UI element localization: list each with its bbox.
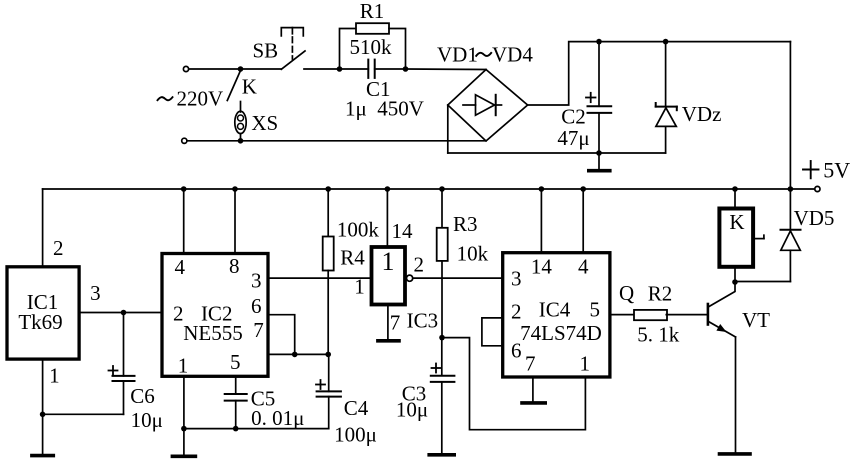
svg-text:2: 2 (173, 302, 184, 326)
svg-text:10μ: 10μ (396, 398, 428, 422)
capacitor C6 (43, 313, 135, 415)
wire IC4 pin4 (582, 189, 584, 253)
svg-text:4: 4 (175, 255, 186, 279)
svg-text:14: 14 (392, 219, 414, 243)
wire IC3 out to IC4 pin3 (413, 277, 503, 279)
resistor R4 (323, 189, 334, 354)
wire IC2 pin6 loop (268, 315, 295, 355)
wire (304, 68, 340, 70)
svg-text:10μ: 10μ (131, 408, 163, 432)
svg-text:XS: XS (251, 111, 278, 135)
svg-text:100k: 100k (337, 218, 380, 242)
wire IC2 pin7 (268, 353, 328, 355)
node junction top-left (238, 66, 244, 72)
node rail IC3 pin14 (385, 186, 391, 192)
svg-text:6: 6 (511, 339, 522, 363)
node rail R4 (325, 186, 331, 192)
label +5V (803, 157, 850, 182)
svg-text:1: 1 (354, 275, 365, 299)
node pin6 pin7 (292, 352, 298, 358)
node VDz top (663, 39, 669, 45)
wire (240, 134, 242, 141)
svg-text:3: 3 (251, 268, 262, 292)
node rail IC4 pin14 (539, 186, 545, 192)
label ~220V (158, 86, 224, 110)
svg-text:5V: 5V (823, 157, 850, 182)
resistor R1 (340, 23, 406, 69)
node rail relay K (732, 186, 738, 192)
svg-text:C4: C4 (344, 396, 369, 420)
svg-text:VD1: VD1 (437, 42, 478, 66)
svg-text:510k: 510k (350, 35, 393, 59)
node rail IC2 pin8 (232, 186, 238, 192)
wire ground link (184, 428, 329, 430)
node C2 top (596, 39, 602, 45)
ground at IC2 pin1 (172, 454, 195, 458)
switch K blade (227, 71, 240, 101)
node R1C1 right (403, 66, 409, 72)
svg-text:6: 6 (251, 294, 262, 318)
wire IC4 pin7 (532, 377, 534, 401)
wire relay K top (734, 189, 736, 209)
node IC1 pin1 C6 (40, 412, 46, 418)
wire reset R3 to IC4 pin1 (442, 338, 585, 430)
svg-text:R1: R1 (360, 0, 385, 23)
node rail R3 (439, 186, 445, 192)
wire IC1 pin1 (42, 359, 44, 454)
node junction bottom-left (238, 138, 244, 144)
svg-text:VDz: VDz (682, 102, 722, 126)
terminal AC input top (183, 66, 188, 71)
svg-text:10k: 10k (457, 241, 489, 265)
pushbutton SB (281, 28, 305, 70)
wire (406, 68, 487, 71)
wire IC2 pin3 to IC3 pin1 (268, 277, 369, 279)
resistor R3 (437, 189, 448, 338)
IC3 box (372, 247, 406, 305)
node rail IC2 pin4 (181, 186, 187, 192)
node R4 C4 (325, 352, 331, 358)
svg-text:VD4: VD4 (492, 42, 533, 66)
socket XS (235, 111, 246, 133)
svg-text:220V: 220V (177, 86, 224, 110)
svg-text:NE555: NE555 (183, 321, 243, 345)
wire AC bottom to bridge (187, 140, 486, 142)
IC2 box (162, 254, 268, 377)
terminal +5V (815, 186, 820, 191)
resistor R2 (634, 310, 667, 320)
ground at IC4 (522, 401, 545, 405)
svg-text:2: 2 (414, 252, 425, 276)
wire R2 to base (666, 314, 708, 316)
ground at VT emitter (720, 452, 751, 456)
svg-text:Tk69: Tk69 (18, 310, 62, 334)
svg-text:1: 1 (579, 351, 590, 375)
wire IC3 pin7 (387, 306, 389, 339)
wire (240, 102, 242, 113)
svg-text:2: 2 (53, 236, 64, 260)
svg-text:47μ: 47μ (557, 126, 589, 150)
svg-text:100μ: 100μ (334, 423, 377, 447)
wire IC1 pin2 (42, 189, 44, 267)
capacitor C1 (340, 60, 406, 78)
svg-text:VD5: VD5 (794, 206, 835, 230)
svg-text:IC4: IC4 (539, 298, 571, 322)
ground at C2 (589, 153, 610, 171)
svg-text:7: 7 (525, 351, 536, 375)
svg-text:C6: C6 (130, 384, 155, 408)
wire relay K bottom (734, 267, 736, 282)
svg-text:IC3: IC3 (407, 309, 439, 333)
wire top rail to +5V rail (789, 42, 791, 189)
label VD1~VD4 (437, 42, 533, 66)
+5V rail (43, 188, 815, 190)
wire IC4 pin2 pin6 loop (482, 318, 503, 346)
svg-text:R4: R4 (340, 246, 365, 270)
relay K box (719, 209, 753, 267)
wire IC4 pin5 (610, 314, 634, 316)
wire IC4 pin14 (540, 189, 542, 253)
svg-text:1: 1 (382, 247, 395, 276)
node C5 bottom (233, 426, 239, 432)
wire IC3 pin14 (386, 189, 388, 245)
svg-text:K: K (729, 210, 744, 234)
svg-text:R2: R2 (648, 282, 673, 306)
svg-text:1: 1 (178, 354, 189, 378)
svg-text:8: 8 (229, 254, 240, 278)
wire IC2 pin1 (183, 376, 185, 454)
svg-text:74LS74D: 74LS74D (520, 321, 602, 345)
zener diode VDz (656, 42, 677, 153)
svg-text:1: 1 (49, 364, 60, 388)
capacitor C2 (586, 42, 611, 153)
node rail VD5 (788, 186, 794, 192)
bridge rectifier VD1~VD4 (448, 70, 528, 142)
wire IC2 pin8 (234, 189, 236, 254)
wire bridge plus to top rail (528, 42, 791, 105)
node R1C1 left (337, 66, 343, 72)
svg-text:3: 3 (511, 267, 522, 291)
svg-text:K: K (242, 75, 257, 99)
node R3 C3 (439, 335, 445, 341)
svg-text:4: 4 (578, 255, 589, 279)
svg-text:3: 3 (90, 281, 101, 305)
wire (189, 68, 241, 70)
svg-text:5: 5 (230, 350, 241, 374)
capacitor C5 (225, 394, 247, 429)
svg-text:Q: Q (619, 281, 634, 305)
svg-text:VT: VT (742, 308, 770, 332)
terminal AC input bottom (182, 138, 187, 143)
diode VD5 (735, 189, 801, 282)
node pin3 C6 (121, 310, 127, 316)
capacitor C3 (431, 338, 455, 453)
wire IC2 pin4 (183, 189, 185, 254)
node collector VD5 (732, 279, 738, 285)
wire negative rail (448, 152, 666, 154)
svg-text:5: 5 (590, 298, 601, 322)
ground at IC3 (378, 339, 399, 343)
svg-text:1μ 450V: 1μ 450V (345, 97, 424, 121)
svg-text:SB: SB (252, 38, 278, 62)
inverter bubble (407, 275, 413, 281)
svg-text:7: 7 (390, 311, 401, 335)
ground at IC1 (32, 454, 53, 458)
svg-text:7: 7 (253, 318, 264, 342)
transistor VT (708, 282, 736, 452)
svg-text:R3: R3 (453, 212, 478, 236)
wire bridge minus leg (447, 105, 449, 153)
svg-text:5. 1k: 5. 1k (637, 323, 680, 347)
node C2 bottom (596, 150, 602, 156)
svg-text:0. 01μ: 0. 01μ (251, 406, 304, 430)
svg-text:14: 14 (531, 255, 553, 279)
relay contact mark (753, 235, 764, 238)
wire IC2 pin5 (235, 376, 237, 394)
ground at C3 (429, 453, 454, 457)
svg-text:C2: C2 (561, 104, 586, 128)
wire IC1 pin3 (79, 312, 162, 314)
node IC2 pin1 (181, 426, 187, 432)
IC1 box (7, 267, 79, 359)
capacitor C4 (316, 354, 341, 428)
IC4 box (503, 253, 610, 377)
node rail IC4 pin4 (580, 186, 586, 192)
wire (241, 68, 282, 70)
